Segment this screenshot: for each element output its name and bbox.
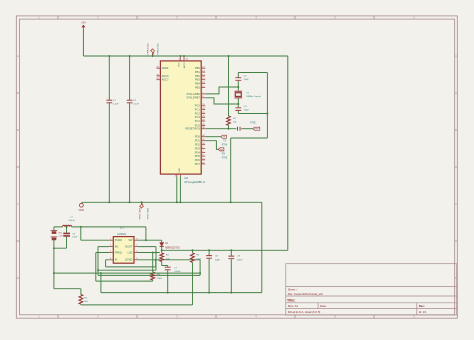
svg-text:PB3: PB3	[195, 78, 200, 82]
svg-text:A: A	[17, 54, 19, 58]
svg-text:ATmega328P-A: ATmega328P-A	[184, 180, 205, 184]
svg-text:XTAL1/PB6: XTAL1/PB6	[186, 92, 200, 96]
svg-text:XTAL2/PB7: XTAL2/PB7	[186, 96, 200, 100]
svg-text:68uF: 68uF	[237, 259, 243, 261]
wire C6 column	[54, 227, 67, 248]
wire R4 to C7	[162, 262, 168, 267]
wire IN pin loop	[106, 260, 156, 267]
inductor L1	[63, 225, 72, 227]
svg-text:PWR_FLAG: PWR_FLAG	[146, 208, 149, 220]
PWR_FLAG on +5V rail	[151, 49, 155, 56]
svg-text:0.1uF: 0.1uF	[113, 104, 119, 106]
svg-text:PD7: PD7	[195, 162, 201, 166]
svg-text:PB5: PB5	[195, 85, 200, 89]
global label TX	[221, 135, 227, 138]
svg-text:C: C	[455, 202, 457, 206]
wire crystal column	[237, 73, 239, 114]
svg-text:PD4: PD4	[195, 150, 201, 154]
crystal Y1	[235, 91, 243, 98]
svg-text:TX: TX	[223, 141, 226, 143]
capacitor C7	[165, 267, 171, 270]
svg-text:Rev:: Rev:	[419, 304, 425, 308]
wire EN pin loop	[98, 247, 200, 276]
wire R1 to RESET	[228, 125, 230, 128]
svg-text:SW: SW	[128, 239, 133, 242]
U2 ground pins	[177, 174, 181, 176]
capacitor C2	[127, 100, 133, 103]
svg-text:AVCC: AVCC	[183, 62, 186, 68]
IC1 right pins	[134, 239, 138, 241]
wire U2 ground to rail	[177, 176, 181, 202]
wire battery minus to R2	[54, 289, 81, 295]
svg-text:EN: EN	[115, 246, 119, 249]
boost converter IC1 LM2621 body	[113, 237, 134, 264]
resistor R1	[227, 116, 231, 125]
capacitor C4	[235, 108, 241, 111]
power symbol +5V	[82, 25, 85, 28]
wire C7 to ground rail	[167, 270, 169, 292]
svg-text:Date:: Date:	[320, 304, 327, 308]
wire DGND pin	[138, 259, 200, 261]
capacitor C5	[238, 127, 241, 131]
svg-text:GND: GND	[79, 209, 85, 212]
svg-text:+5V: +5V	[81, 20, 86, 24]
svg-text:FT05: FT05	[250, 123, 256, 125]
svg-text:RESET/PC6: RESET/PC6	[185, 127, 200, 131]
wire ground link down	[261, 202, 263, 292]
capacitor C8	[208, 250, 210, 292]
svg-text:RX: RX	[222, 153, 226, 155]
resistor R2	[79, 295, 83, 305]
svg-text:RST: RST	[255, 129, 260, 131]
svg-text:30pF: 30pF	[215, 259, 221, 261]
U2 left pins AREF ADC6 ADC7	[156, 67, 160, 69]
svg-text:ADC7: ADC7	[162, 78, 169, 82]
svg-text:PWR_FLAG: PWR_FLAG	[146, 43, 149, 55]
wire SW pin	[138, 239, 162, 241]
U2 right pins	[201, 67, 205, 69]
svg-text:IC1: IC1	[120, 227, 125, 230]
svg-text:24MHz Crystal: 24MHz Crystal	[246, 95, 261, 98]
svg-text:PC4: PC4	[195, 119, 201, 123]
svg-text:PD5: PD5	[195, 154, 201, 158]
wire +5V vertical drop	[82, 28, 84, 56]
capacitor C3	[235, 78, 241, 81]
svg-text:IN: IN	[115, 259, 118, 262]
svg-text:Size: A4: Size: A4	[288, 304, 299, 308]
wire FREQ pin loop	[96, 253, 153, 282]
svg-text:PC1: PC1	[195, 107, 201, 111]
mcu U2 ATmega328P-A body	[160, 61, 201, 174]
svg-text:PC3: PC3	[195, 115, 201, 119]
global label RST	[253, 127, 260, 130]
svg-text:100nF: 100nF	[174, 271, 181, 273]
svg-text:PGND: PGND	[115, 239, 122, 242]
wire C5 to RST label	[241, 128, 253, 130]
wire XTAL1 to crystal	[205, 87, 238, 94]
wire R1 column from +5V rail	[228, 56, 230, 116]
wire PD0 TX	[205, 136, 221, 138]
svg-text:A: A	[455, 54, 457, 58]
svg-text:PD6: PD6	[195, 158, 201, 162]
U2 power pins VCC AVCC	[180, 57, 184, 61]
wire main ground rail	[81, 201, 261, 203]
wire R5 column	[192, 250, 194, 305]
wire R2 bottom rail	[81, 303, 193, 306]
PWR_FLAG on ground rail	[140, 202, 144, 208]
svg-text:KiCad E.D.A. kicad (6.0.5): KiCad E.D.A. kicad (6.0.5)	[288, 310, 321, 314]
wire PD1 RX	[205, 141, 218, 150]
capacitor C9	[230, 250, 232, 292]
wire +5V output rail	[162, 249, 288, 251]
svg-text:PB1: PB1	[195, 70, 200, 74]
svg-text:BOOT: BOOT	[125, 246, 133, 249]
wire RESET/PC6 to C5	[205, 128, 236, 130]
IC1 left pins	[109, 239, 113, 241]
svg-text:PWR_FLAG: PWR_FLAG	[156, 43, 159, 55]
svg-text:File: CustomMCU.kicad_sch: File: CustomMCU.kicad_sch	[288, 292, 324, 296]
svg-text:PB2: PB2	[195, 74, 200, 78]
wire ground branch	[54, 273, 200, 293]
svg-text:C: C	[17, 202, 19, 206]
wire battery column	[53, 227, 55, 289]
wire +5V right riser	[287, 56, 289, 250]
svg-text:22uF: 22uF	[72, 237, 78, 239]
svg-text:PD1: PD1	[195, 139, 201, 143]
svg-text:D: D	[17, 276, 19, 280]
svg-text:LSD: LSD	[128, 251, 133, 254]
svg-text:ADC6: ADC6	[162, 74, 169, 78]
resistor R4	[161, 250, 163, 253]
svg-text:PC0: PC0	[195, 104, 201, 108]
svg-text:0.1uF: 0.1uF	[133, 104, 139, 106]
svg-text:B: B	[455, 128, 457, 132]
svg-text:Id: 1/1: Id: 1/1	[419, 310, 427, 314]
svg-text:Sheet: /: Sheet: /	[288, 288, 298, 292]
svg-text:6.8uH: 6.8uH	[69, 220, 75, 222]
svg-text:VCC: VCC	[178, 62, 180, 67]
svg-text:FT04: FT04	[222, 144, 228, 146]
svg-text:PD0: PD0	[195, 135, 201, 139]
global label RX	[218, 148, 224, 151]
svg-text:PB4: PB4	[195, 82, 200, 86]
wire PGND pin	[81, 227, 110, 240]
resistor R3	[151, 272, 155, 280]
wire XTAL2 to crystal	[205, 98, 238, 104]
svg-text:PD2: PD2	[195, 143, 201, 147]
svg-text:PC2: PC2	[195, 111, 201, 115]
title block	[286, 264, 457, 315]
svg-text:DGND: DGND	[125, 259, 133, 262]
svg-text:FREQ: FREQ	[115, 251, 122, 254]
resistor R5	[191, 253, 195, 263]
svg-text:PB0: PB0	[195, 66, 200, 70]
svg-text:22pF: 22pF	[244, 110, 250, 112]
wire BOOT pin loop	[98, 247, 156, 271]
svg-text:FT03: FT03	[222, 157, 228, 159]
svg-text:LM2621: LM2621	[117, 233, 127, 236]
wire +5V top rail	[83, 55, 287, 57]
svg-text:MBR0520T5G: MBR0520T5G	[165, 247, 180, 249]
battery BT1	[51, 231, 58, 237]
wire battery top rail	[54, 227, 146, 240]
svg-text:PWR_FLAG: PWR_FLAG	[138, 208, 141, 220]
capacitor C6	[63, 233, 70, 236]
svg-text:1.5V: 1.5V	[59, 236, 64, 238]
svg-text:AREF: AREF	[162, 66, 169, 70]
svg-text:Title:: Title:	[287, 299, 296, 303]
wire crystal ground loop	[231, 73, 268, 203]
wire C2 column	[129, 56, 131, 202]
capacitor C1	[106, 100, 112, 103]
wire R3 column	[152, 253, 154, 273]
wire bottom ground rail	[101, 292, 262, 294]
svg-text:B: B	[17, 128, 19, 132]
svg-text:22pF: 22pF	[244, 79, 250, 81]
wire LSD feedback	[138, 252, 160, 254]
svg-text:PD3: PD3	[195, 146, 201, 150]
diode D1 MBR0520	[161, 240, 163, 242]
wire C1 column	[108, 56, 110, 202]
ground symbol	[80, 203, 84, 207]
svg-text:GND: GND	[179, 167, 181, 172]
